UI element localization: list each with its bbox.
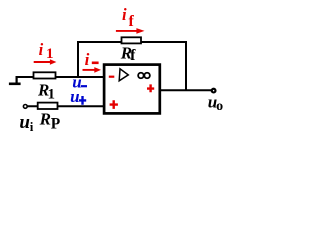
svg-text:1: 1	[48, 86, 56, 102]
svg-text:f: f	[129, 13, 135, 30]
svg-text:u: u	[70, 87, 79, 106]
svg-text:u: u	[19, 112, 30, 133]
svg-text:i: i	[30, 119, 34, 134]
svg-text:1: 1	[46, 46, 54, 62]
svg-text:R: R	[39, 110, 51, 129]
svg-text:i: i	[85, 50, 90, 69]
svg-text:P: P	[51, 116, 61, 133]
svg-text:i: i	[122, 5, 127, 24]
svg-text:i: i	[39, 40, 44, 59]
svg-text:f: f	[130, 47, 136, 64]
svg-text:o: o	[216, 99, 223, 114]
